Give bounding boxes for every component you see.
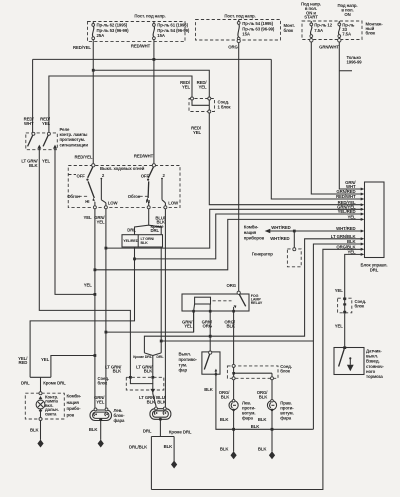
svg-text:HI: HI	[146, 199, 150, 204]
svg-text:Соед.1 блок: Соед.1 блок	[218, 100, 232, 110]
wire switch2 HI fork	[135, 208, 149, 235]
svg-text:LT GRN/BLK: LT GRN/BLK	[141, 237, 155, 245]
svg-text:ORG/BLK: ORG/BLK	[219, 390, 231, 399]
DRL control unit Блок управл. DRL	[365, 182, 385, 258]
svg-text:LOW: LOW	[168, 200, 179, 205]
wire ind lamp feed	[40, 377, 42, 393]
wire YEL from DRL unit	[345, 254, 362, 297]
svg-text:Кроме DRL: Кроме DRL	[43, 380, 66, 385]
node YEL relay join	[94, 293, 97, 296]
svg-text:Обгон: Обгон	[128, 194, 141, 199]
svg-text:BLK: BLK	[251, 424, 261, 429]
svg-text:BLU/BLK: BLU/BLK	[156, 395, 167, 404]
connector Соед. блок fog lamps	[227, 364, 278, 379]
switch assembly 2 (right)	[146, 164, 167, 209]
node RED/YEL tap	[92, 69, 95, 72]
ground indicator lamp	[37, 440, 43, 448]
node YEL/RED W2 tap	[133, 258, 136, 261]
svg-text:YEL/RED: YEL/RED	[123, 239, 138, 243]
svg-text:RED/YEL: RED/YEL	[191, 126, 202, 135]
svg-text:Под напр.в пол.ON иSTART: Под напр.в пол.ON иSTART	[301, 2, 321, 20]
svg-text:Прав.проти-вотум.фара: Прав.проти-вотум.фара	[280, 400, 294, 420]
pin arrow row 2 into DRL unit	[361, 193, 365, 196]
wire only-96-99 tick	[339, 70, 352, 72]
wire ORG/BLK from DRL unit	[151, 249, 362, 489]
fuse box 3 (монтажный блок)	[302, 21, 362, 40]
pin arrow row 3 into DRL unit	[361, 198, 365, 201]
svg-text:FOGLAMPRELAY: FOGLAMPRELAY	[251, 294, 263, 305]
svg-text:Пр-ль 62 (1995)Пр-ль 53 (96-99: Пр-ль 62 (1995)Пр-ль 53 (96-99)25А	[97, 23, 130, 39]
svg-text:GRN/YEL: GRN/YEL	[182, 319, 193, 328]
wire LT GRN/BLK from DRL unit	[144, 239, 362, 353]
wire ind lamp fork	[30, 376, 51, 378]
svg-text:КромеDRL: КромеDRL	[151, 224, 165, 233]
svg-text:RED/YEL: RED/YEL	[180, 80, 191, 89]
connector pin fuse box 3 right	[338, 39, 341, 42]
wire RED/WHT drop to DRL unit	[271, 59, 362, 199]
switch Выкл. противотум. фар	[202, 351, 220, 376]
wire fog lamp right feed	[271, 378, 273, 401]
svg-text:ORG: ORG	[227, 283, 237, 288]
wire switch2 HI fork right	[149, 225, 162, 235]
svg-text:RED/WHT: RED/WHT	[336, 194, 356, 199]
svg-text:YEL: YEL	[347, 215, 356, 220]
box wire variants YEL/RED | LT GRN/BLK	[122, 235, 163, 247]
indicator Контр. лампа вкл. дальн. света (in dashed box)	[25, 392, 64, 421]
svg-text:RED/YEL: RED/YEL	[75, 155, 93, 160]
ground fog lamp right	[269, 451, 275, 459]
wire fork bar	[151, 436, 174, 438]
svg-text:YEL/RED: YEL/RED	[338, 209, 356, 214]
svg-text:Датчик-выкл.Взвед.стояноч-ного: Датчик-выкл.Взвед.стояноч-ноготормоза	[366, 349, 384, 380]
node GRN/YEL coil tap	[105, 331, 108, 334]
pin arrow row 4 into DRL unit	[361, 203, 365, 206]
svg-text:DRL: DRL	[21, 380, 30, 385]
ground headlamp 2 BLK	[171, 461, 177, 469]
pin arrow row 9 into DRL unit	[361, 237, 365, 240]
svg-text:BLK: BLK	[30, 427, 40, 432]
generator Генератор (dashed box)	[287, 248, 301, 267]
wire fog switch out BLK	[216, 374, 313, 429]
wire ORG fuse to fog relay	[238, 42, 240, 292]
ground fog lamp left	[231, 451, 237, 459]
wire fog lamp left gnd	[233, 410, 235, 452]
svg-text:WHT/RED: WHT/RED	[336, 226, 355, 231]
svg-text:Соед.блок: Соед.блок	[355, 299, 367, 309]
wire YEL branch to DRL unit	[95, 219, 362, 269]
svg-text:Лев.проти-вотум.фара: Лев.проти-вотум.фара	[242, 400, 256, 420]
svg-text:Выкл. ходовых огней: Выкл. ходовых огней	[100, 166, 145, 171]
svg-text:YEL: YEL	[83, 215, 92, 220]
headlamp Лев. блок-фара	[90, 408, 112, 421]
wire RED/YEL fuse drop	[92, 42, 94, 165]
fuse 61/54 15A	[153, 22, 156, 42]
pin arrow row 1 into DRL unit	[361, 188, 365, 191]
fuse 12 7.5A	[310, 21, 313, 40]
svg-text:BLK: BLK	[204, 387, 214, 392]
relay Реле контр. лампы противотум. сигнализации	[26, 132, 58, 150]
wire RED/WHT bus y59	[33, 58, 272, 60]
wire GRN/WHT fuse33 drop	[339, 40, 362, 190]
node YEL indicator tap	[94, 354, 97, 357]
svg-text:Блок управл.DRL: Блок управл.DRL	[360, 263, 387, 273]
svg-text:OFF: OFF	[77, 173, 86, 178]
node BLK bus right lamp	[271, 428, 274, 431]
svg-text:BLK: BLK	[220, 417, 230, 422]
wire BLK from DRL unit	[313, 244, 362, 429]
svg-text:LT GRN/BLK: LT GRN/BLK	[139, 395, 156, 404]
fuse box 2 (Пост. под напр.)	[196, 20, 281, 41]
dashed pointer Обгон right	[140, 195, 149, 197]
wire lamp merge left	[144, 353, 152, 377]
wire RED/YEL relay to joint	[49, 76, 192, 133]
svg-text:DRL/BLK: DRL/BLK	[129, 444, 148, 449]
switch Выкл. ходовых огней (dashed box)	[68, 166, 180, 208]
node RED/WHT tap	[153, 58, 156, 61]
svg-text:Под напр.в пол.ON: Под напр.в пол.ON	[337, 3, 357, 17]
svg-text:BLK: BLK	[89, 427, 99, 432]
svg-text:GRN/ORG: GRN/ORG	[202, 319, 213, 328]
wire pbrake gnd stub	[349, 359, 351, 365]
svg-text:RED/WHT: RED/WHT	[134, 154, 154, 159]
svg-text:GRN/YEL: GRN/YEL	[94, 215, 105, 224]
dashed pointer OFF left	[68, 174, 76, 176]
node LT GRN/BLK link tap	[160, 340, 163, 343]
wire RED/YEL branch y70	[93, 70, 209, 97]
svg-text:DRL: DRL	[156, 355, 164, 359]
svg-text:BLK: BLK	[220, 446, 230, 451]
svg-text:LOW: LOW	[108, 200, 119, 205]
wire BLK ground bus riser	[312, 428, 315, 430]
svg-text:Монт.блок: Монт.блок	[284, 23, 295, 33]
svg-text:Пр-ль337.5А: Пр-ль337.5А	[342, 23, 354, 37]
svg-text:Монтаж-ныйблок: Монтаж-ныйблок	[366, 22, 384, 36]
svg-text:BLK: BLK	[164, 444, 174, 449]
fuse 54/63 15A	[237, 20, 240, 43]
svg-text:BLK: BLK	[258, 417, 268, 422]
wire BLK drop to ground	[173, 437, 175, 462]
wire GRN/YEL branch to DRL unit	[106, 209, 362, 248]
wire LT GRN/BLK link	[161, 340, 313, 342]
wire YEL/RED variant drop	[30, 247, 134, 377]
svg-text:ORG/BLK: ORG/BLK	[224, 319, 236, 328]
wire fog lamp right gnd	[271, 410, 273, 452]
wire RED/WHT drop to relay	[32, 59, 34, 132]
pin arrow row 12 into DRL unit	[361, 253, 365, 256]
wire WHT/RED bus	[266, 230, 362, 232]
wire YEL relay out	[55, 151, 95, 295]
svg-text:YEL: YEL	[84, 283, 93, 288]
node GRN/YEL W1 tap	[105, 247, 108, 250]
arrow WHT/RED to Комбинация приборов	[265, 229, 271, 234]
svg-text:Кроме DRL: Кроме DRL	[133, 355, 153, 359]
svg-text:Лев.блок-фара: Лев.блок-фара	[114, 408, 126, 423]
ground headlamp 1	[98, 440, 104, 448]
svg-text:Соед.блок: Соед.блок	[280, 364, 292, 374]
svg-text:YEL: YEL	[347, 250, 356, 255]
wire GRN/YEL fog relay pin	[193, 311, 195, 332]
svg-text:YEL: YEL	[42, 159, 51, 164]
svg-text:YEL: YEL	[41, 357, 50, 362]
wire lamp merge right	[153, 353, 161, 356]
fuse box 1 (Пост. под напр.)	[88, 22, 186, 42]
connector Соед. блок headlamp	[126, 376, 164, 393]
svg-text:RED/WHT: RED/WHT	[131, 44, 151, 49]
svg-text:RED/YEL: RED/YEL	[73, 45, 91, 50]
svg-text:RED/YEL: RED/YEL	[40, 117, 51, 126]
wire GRN/RED fuse12 drop	[311, 40, 362, 195]
wire headlamp2 feed	[153, 391, 156, 409]
svg-text:Пост. под напр.: Пост. под напр.	[224, 14, 255, 19]
svg-text:WHT/RED: WHT/RED	[270, 236, 289, 241]
wire ind lamp gnd	[40, 419, 42, 440]
svg-text:Только1996-99: Только1996-99	[347, 55, 363, 64]
wire YEL to park brake switch	[344, 314, 346, 349]
svg-text:YEL/RED: YEL/RED	[18, 356, 28, 365]
svg-text:Пр-ль 54 (1995)Пр-ль 63 (96-99: Пр-ль 54 (1995)Пр-ль 63 (96-99)15А	[242, 21, 275, 37]
svg-text:Выкл.противо-тум.фар: Выкл.противо-тум.фар	[179, 352, 198, 373]
pin arrow row 6 into DRL unit	[361, 213, 365, 216]
pin arrow row 5 into DRL unit	[361, 208, 365, 211]
svg-text:LT GRN/BLK: LT GRN/BLK	[105, 364, 122, 373]
svg-text:DRL: DRL	[127, 227, 136, 232]
node YEL W3 tap	[94, 268, 97, 271]
svg-text:WHT/RED: WHT/RED	[271, 225, 290, 230]
wire RED/YEL joint to DRL unit	[209, 112, 362, 204]
fuse 62/53 25A	[92, 22, 95, 42]
svg-text:GRN/WHT: GRN/WHT	[319, 45, 339, 50]
node BLK bus left lamp	[232, 428, 235, 431]
wire headlamp1 gnd	[100, 420, 102, 440]
svg-text:Генератор: Генератор	[252, 252, 273, 257]
pin arrow row 11 into DRL unit	[361, 248, 365, 251]
pin arrow row 10 into DRL unit	[361, 243, 365, 246]
connector pin fuse box 2	[237, 39, 240, 42]
svg-text:Пр-ль 61 (1996)Пр-ль 54 (96-99: Пр-ль 61 (1996)Пр-ль 54 (96-99)15А	[157, 23, 190, 39]
pin arrow row 8 into DRL unit	[361, 230, 365, 233]
svg-text:RED/YEL: RED/YEL	[197, 80, 208, 89]
wire headlamp2 out fork	[159, 419, 161, 436]
connector pin fuse box 3 left	[310, 39, 313, 42]
headlamp (two-filament) right	[150, 407, 171, 421]
svg-text:Пост. под напр.: Пост. под напр.	[134, 14, 165, 19]
svg-text:BLK: BLK	[347, 239, 357, 244]
svg-text:Контр.лампавкл.дальн.света: Контр.лампавкл.дальн.света	[45, 394, 59, 416]
svg-text:DRL: DRL	[143, 428, 152, 433]
svg-text:GRN/YEL: GRN/YEL	[94, 395, 105, 404]
switch assembly 1 (left)	[86, 164, 107, 209]
node LT GRN/BLK fog switch tap	[209, 335, 212, 338]
svg-text:LT GRN/BLK: LT GRN/BLK	[21, 159, 38, 168]
node WHT/RED generator tap	[293, 230, 296, 233]
fog lamp Лев. противотум. фара	[229, 399, 238, 411]
svg-text:RED/WHT: RED/WHT	[24, 117, 35, 126]
svg-text:Соед.блок: Соед.блок	[98, 376, 110, 386]
wire fog lamp left feed	[233, 378, 235, 401]
svg-text:YEL: YEL	[335, 288, 344, 293]
wire YEL switch HI out	[94, 207, 96, 410]
connector Соед. блок on YEL wire	[338, 298, 352, 314]
wire GRN/YEL branch to fog relay coil	[106, 311, 194, 332]
svg-text:ORG: ORG	[228, 45, 238, 50]
pin arrow row 7 into DRL unit	[361, 218, 365, 221]
svg-text:Релеконтр. лампыпротивотум.сиг: Релеконтр. лампыпротивотум.сигнализации	[60, 127, 89, 147]
svg-text:2: 2	[163, 173, 166, 178]
fuse 33 7.5A	[338, 21, 341, 40]
wire LT GRN/BLK relay out	[39, 151, 130, 378]
wire DRL/BLK drop	[150, 437, 152, 490]
svg-text:Обгон: Обгон	[67, 194, 80, 199]
svg-text:Пр-ль 127.5А: Пр-ль 127.5А	[314, 23, 332, 33]
relay FOG LAMP RELAY	[182, 291, 249, 312]
svg-text:Кроме DRL: Кроме DRL	[169, 429, 192, 434]
svg-text:LT GRN/BLK: LT GRN/BLK	[136, 364, 153, 373]
connector Соед. 1 блок	[189, 97, 215, 113]
fog lamp Прав. противотум. фара	[267, 399, 276, 411]
svg-text:2: 2	[102, 173, 105, 178]
wire RED/WHT fuse to switch	[153, 42, 155, 165]
wire GRN/ORG fog relay to switch	[209, 311, 211, 352]
svg-text:YEL: YEL	[335, 324, 344, 329]
wire WHT/RED generator drop	[293, 231, 295, 248]
switch Датчик-выкл. взведенного стояночного тормоза	[334, 346, 364, 374]
wire YEL/RED branch to DRL unit	[135, 214, 363, 259]
wire YEL branch to ind lamp	[51, 356, 95, 378]
wire ORG/BLK fog relay out	[233, 311, 235, 366]
wire BLU/BLK switch LOW2 drop	[164, 208, 166, 409]
svg-text:HI: HI	[85, 199, 89, 204]
svg-text:Комби-нацияприборов: Комби-нацияприборов	[244, 224, 265, 240]
svg-text:BLK: BLK	[258, 446, 268, 451]
wire GRN/YEL switch LOW out	[105, 207, 107, 410]
svg-text:OFF: OFF	[141, 173, 150, 178]
svg-text:ORG/BLK: ORG/BLK	[257, 390, 269, 399]
dashed pointer Обгон left	[79, 195, 89, 197]
wire LT GRN/BLK variant drop	[160, 247, 162, 353]
svg-text:Комби-нацияприбо-ров: Комби-нацияприбо-ров	[67, 394, 82, 418]
